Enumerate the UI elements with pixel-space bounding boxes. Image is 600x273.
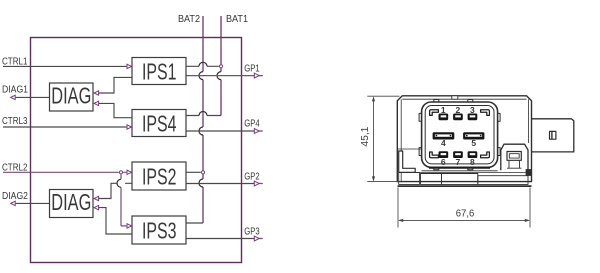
svg-text:GP3: GP3 <box>244 227 260 238</box>
svg-text:CTRL1: CTRL1 <box>2 56 28 67</box>
svg-text:45,1: 45,1 <box>360 126 371 146</box>
svg-text:3: 3 <box>470 105 475 115</box>
svg-text:8: 8 <box>470 157 475 167</box>
svg-text:BAT2: BAT2 <box>178 14 200 25</box>
svg-text:CTRL3: CTRL3 <box>2 116 28 127</box>
svg-text:DIAG: DIAG <box>51 82 91 108</box>
svg-text:DIAG1: DIAG1 <box>2 85 28 96</box>
svg-text:DIAG: DIAG <box>51 189 91 215</box>
svg-text:CTRL2: CTRL2 <box>2 162 28 173</box>
svg-text:IPS2: IPS2 <box>142 164 177 190</box>
svg-text:BAT1: BAT1 <box>226 14 248 25</box>
svg-text:5: 5 <box>471 138 476 148</box>
svg-text:GP1: GP1 <box>244 64 260 75</box>
svg-text:1: 1 <box>441 105 446 115</box>
svg-text:IPS4: IPS4 <box>142 111 177 137</box>
svg-text:DIAG2: DIAG2 <box>2 191 28 202</box>
svg-text:GP4: GP4 <box>244 119 260 130</box>
svg-text:2: 2 <box>456 105 461 115</box>
svg-text:67,6: 67,6 <box>456 209 475 220</box>
svg-text:IPS1: IPS1 <box>142 59 177 85</box>
svg-text:GP2: GP2 <box>244 172 260 183</box>
svg-text:7: 7 <box>456 157 461 167</box>
svg-text:IPS3: IPS3 <box>142 218 177 244</box>
svg-text:4: 4 <box>441 138 446 148</box>
svg-text:6: 6 <box>441 157 446 167</box>
